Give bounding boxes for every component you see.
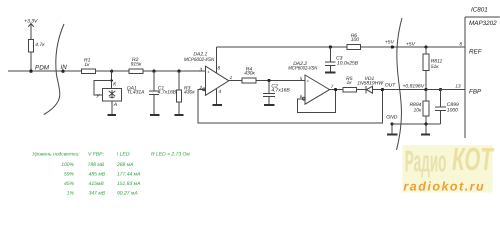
node IN bbox=[61, 64, 68, 73]
svg-text:+: + bbox=[307, 78, 310, 83]
svg-text:4,7х16В: 4,7х16В bbox=[271, 88, 290, 94]
svg-text:4: 4 bbox=[219, 89, 222, 94]
resistor R6 100 bbox=[347, 33, 361, 49]
svg-text:177,44 мА: 177,44 мА bbox=[117, 172, 141, 178]
capacitor C899 1000 bbox=[435, 90, 459, 124]
svg-text:КОТ: КОТ bbox=[452, 141, 494, 177]
tear line left (cable break) bbox=[44, 24, 64, 115]
ground DA2.1 pin4 bbox=[213, 104, 222, 106]
svg-text:915к: 915к bbox=[131, 62, 142, 68]
label GND bbox=[386, 114, 398, 120]
wire DA2.2 output bbox=[330, 88, 343, 91]
svg-text:TL431A: TL431A bbox=[127, 90, 145, 96]
svg-text:3: 3 bbox=[200, 67, 203, 72]
svg-text:MCP6002-I/SN: MCP6002-I/SN bbox=[184, 57, 215, 63]
wire +5V top rail bbox=[217, 46, 466, 48]
wire DA2.2 feedback bbox=[297, 90, 335, 113]
svg-text:MAP3202: MAP3202 bbox=[469, 20, 497, 27]
ground C3 bbox=[325, 71, 335, 73]
svg-text:5: 5 bbox=[300, 76, 303, 81]
op-amp DA2.2 MCP6002-I/SN bbox=[288, 61, 334, 104]
svg-text:1к: 1к bbox=[84, 62, 90, 68]
wire DA2.1 pin8 supply riser bbox=[216, 47, 218, 73]
table backlight levels bbox=[32, 152, 190, 197]
node C3 junction bbox=[329, 45, 332, 48]
node C2 junction bbox=[267, 79, 270, 82]
node R811 top junction bbox=[424, 45, 427, 48]
shunt regulator DA1 TL431A bbox=[102, 85, 145, 101]
svg-text:+5V: +5V bbox=[385, 40, 395, 46]
svg-text:1%: 1% bbox=[67, 190, 75, 196]
svg-text:REF: REF bbox=[469, 48, 483, 55]
svg-text:OUT: OUT bbox=[385, 82, 397, 88]
node OUT junction bbox=[381, 82, 397, 91]
svg-text:4,7х16В: 4,7х16В bbox=[158, 89, 177, 95]
ground R894 bbox=[421, 124, 430, 134]
svg-text:IC801: IC801 bbox=[471, 6, 488, 13]
IC IC801 MAP3202 box bbox=[465, 6, 500, 138]
resistor 4,7k pullup bbox=[29, 40, 46, 72]
svg-text:+5V: +5V bbox=[406, 41, 416, 47]
svg-text:1к: 1к bbox=[347, 80, 353, 86]
svg-text:100: 100 bbox=[351, 37, 360, 43]
node R894 bottom junction bbox=[424, 122, 427, 125]
svg-text:788 мВ: 788 мВ bbox=[88, 162, 105, 168]
resistor R894 10k bbox=[409, 90, 428, 124]
svg-text:PDM: PDM bbox=[35, 65, 50, 72]
op-amp DA2.1 MCP6002-I/SN bbox=[184, 52, 233, 96]
watermark radiokot logo bbox=[403, 141, 495, 193]
pin 8 REF bbox=[460, 41, 483, 55]
svg-text:45%: 45% bbox=[64, 181, 75, 187]
svg-text:MCP6002-I/SN: MCP6002-I/SN bbox=[288, 66, 317, 72]
svg-text:13: 13 bbox=[455, 84, 461, 89]
power +3.3V bbox=[24, 18, 38, 39]
node GND junction bbox=[390, 122, 440, 125]
node PDM junction bbox=[29, 65, 49, 73]
svg-text:+0,8196V: +0,8196V bbox=[403, 84, 425, 90]
power +5V left bbox=[385, 40, 395, 49]
svg-text:90,27 мА: 90,27 мА bbox=[117, 190, 138, 196]
svg-text:100%: 100% bbox=[61, 162, 74, 168]
svg-text:430к: 430к bbox=[184, 89, 195, 95]
resistor R3 430k bbox=[177, 71, 196, 115]
svg-text:R LED = 2,73 Ом: R LED = 2,73 Ом bbox=[151, 152, 190, 158]
svg-text:IN: IN bbox=[61, 64, 68, 71]
svg-text:4,7к: 4,7к bbox=[35, 42, 45, 48]
capacitor C1 4,7x16V bbox=[149, 71, 177, 115]
svg-text:1000: 1000 bbox=[447, 108, 458, 114]
label +0,8196V bbox=[403, 84, 425, 90]
pin 13 FBP bbox=[455, 84, 482, 96]
ground R3 bbox=[175, 114, 184, 116]
capacitor C3 10,0x25V bbox=[325, 47, 359, 72]
svg-text:1: 1 bbox=[230, 75, 233, 80]
resistor R1 1k bbox=[82, 58, 96, 74]
svg-text:51к: 51к bbox=[431, 64, 440, 70]
svg-text:8: 8 bbox=[460, 41, 463, 46]
svg-text:151,83 мА: 151,83 мА bbox=[117, 181, 141, 187]
wire FBP line to IC bbox=[426, 89, 465, 91]
wire main PDM net bbox=[8, 70, 206, 72]
svg-text:347 мВ: 347 мВ bbox=[89, 190, 106, 196]
wire DA2.1 pin4 bbox=[216, 89, 218, 105]
svg-text:10к: 10к bbox=[413, 108, 422, 114]
svg-text:Радио: Радио bbox=[405, 146, 447, 179]
resistor R4 430k bbox=[242, 66, 305, 82]
tear line right bbox=[397, 18, 403, 150]
svg-text:radiokot.ru: radiokot.ru bbox=[403, 179, 485, 193]
svg-text:Уровень подсветки:: Уровень подсветки: bbox=[32, 152, 80, 158]
resistor R811 51k bbox=[423, 47, 443, 90]
svg-text:+: + bbox=[207, 69, 210, 74]
node K junction bbox=[110, 70, 113, 73]
diode VD1 1N5819HW bbox=[357, 76, 426, 93]
node R3 junction bbox=[177, 70, 180, 73]
capacitor C2 4,7x16V bbox=[263, 81, 290, 105]
svg-text:415мВ: 415мВ bbox=[89, 181, 105, 187]
ground C2 bbox=[264, 104, 274, 106]
svg-text:А: А bbox=[113, 102, 118, 108]
svg-text:430к: 430к bbox=[244, 71, 255, 77]
wire DA2.1 pin2 feedback from OUT bbox=[198, 89, 383, 123]
resistor R5 1k bbox=[343, 76, 366, 92]
svg-text:V FBP:: V FBP: bbox=[88, 152, 104, 158]
node R894 top junction bbox=[424, 88, 427, 91]
svg-text:FBP: FBP bbox=[469, 89, 482, 96]
wire TL431 ref feedback bbox=[94, 81, 112, 100]
svg-text:7: 7 bbox=[331, 84, 334, 89]
ground GND net bbox=[387, 124, 397, 134]
svg-text:8: 8 bbox=[218, 65, 221, 70]
svg-text:10,0х25В: 10,0х25В bbox=[337, 60, 359, 66]
svg-text:59%: 59% bbox=[64, 172, 75, 178]
power +5V right bbox=[406, 41, 416, 47]
wire TL431 cathode drop bbox=[111, 71, 118, 88]
node C899 top bbox=[439, 88, 442, 91]
svg-text:I LED:: I LED: bbox=[117, 152, 132, 158]
node C1 junction bbox=[152, 70, 155, 73]
wire DA2.1 output bbox=[229, 80, 242, 82]
wire TL431 anode bbox=[112, 101, 118, 114]
svg-text:288 мА: 288 мА bbox=[116, 162, 134, 168]
svg-text:485 мВ: 485 мВ bbox=[89, 172, 106, 178]
ground TL431 bbox=[107, 114, 116, 116]
ground C1 bbox=[150, 114, 159, 116]
svg-text:1N5819HW: 1N5819HW bbox=[357, 80, 384, 86]
resistor R2 915k bbox=[129, 57, 143, 74]
svg-text:GND: GND bbox=[386, 114, 398, 120]
